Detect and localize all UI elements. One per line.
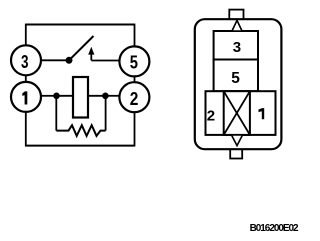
connector index arrow up bbox=[232, 20, 242, 31]
resistor (zigzag) bbox=[56, 125, 105, 136]
svg-text:5: 5 bbox=[231, 70, 240, 87]
wire right junction to terminal 2 bbox=[105, 95, 120, 97]
connector bottom locating tab bbox=[230, 147, 242, 159]
connector top locating tab bbox=[229, 10, 243, 21]
keyway cell with X bbox=[224, 91, 250, 135]
switch pivot junction dot bbox=[66, 57, 73, 64]
switch actuation arrow bbox=[88, 47, 94, 61]
wire coil to right junction bbox=[88, 95, 105, 97]
wire right edge upper (case to terminal 5) bbox=[134, 24, 136, 47]
terminal 5 bbox=[119, 46, 149, 76]
svg-text:2: 2 bbox=[130, 89, 139, 109]
svg-text:5: 5 bbox=[130, 52, 138, 72]
cavity 3 bbox=[214, 31, 258, 60]
wire right edge lower (terminal 2 to case bottom) bbox=[134, 112, 136, 147]
relay case outline top edge bbox=[26, 24, 135, 26]
terminal 2 bbox=[119, 82, 149, 112]
wire left junction down to resistor bbox=[55, 96, 57, 131]
wire stub terminal 3 to terminal 1 bbox=[25, 75, 27, 83]
wire terminal 1 to left junction bbox=[41, 95, 57, 97]
junction dot right (node on coil wire) bbox=[102, 93, 109, 100]
wire stub terminal 5 to terminal 2 bbox=[134, 76, 136, 84]
cavity 1 bbox=[259, 108, 265, 119]
connector body outline bbox=[195, 19, 282, 149]
wire left junction to coil bbox=[57, 95, 74, 97]
relay coil (rectangle) bbox=[73, 77, 88, 118]
wire switch arrow to terminal 5 bbox=[91, 60, 120, 62]
svg-text:B016200E02: B016200E02 bbox=[250, 223, 299, 234]
wire resistor up to right junction bbox=[105, 96, 107, 131]
wire terminal 3 to switch pivot bbox=[41, 59, 70, 61]
terminal 3 bbox=[11, 45, 41, 75]
bottom cavity row outline bbox=[206, 91, 276, 135]
wire left edge upper (case to terminal 3) bbox=[25, 24, 27, 46]
cavity 5 bbox=[214, 60, 258, 92]
svg-text:3: 3 bbox=[233, 39, 241, 56]
switch blade contact (open) bbox=[69, 36, 94, 60]
connector index arrow down bbox=[232, 135, 243, 146]
terminal 1 bbox=[11, 82, 41, 112]
svg-text:2: 2 bbox=[207, 107, 215, 124]
relay case outline bottom edge bbox=[26, 145, 135, 147]
wire left edge lower (terminal 1 to case bottom) bbox=[25, 111, 27, 147]
svg-text:3: 3 bbox=[21, 52, 29, 72]
junction dot left (node on coil wire) bbox=[53, 93, 60, 100]
